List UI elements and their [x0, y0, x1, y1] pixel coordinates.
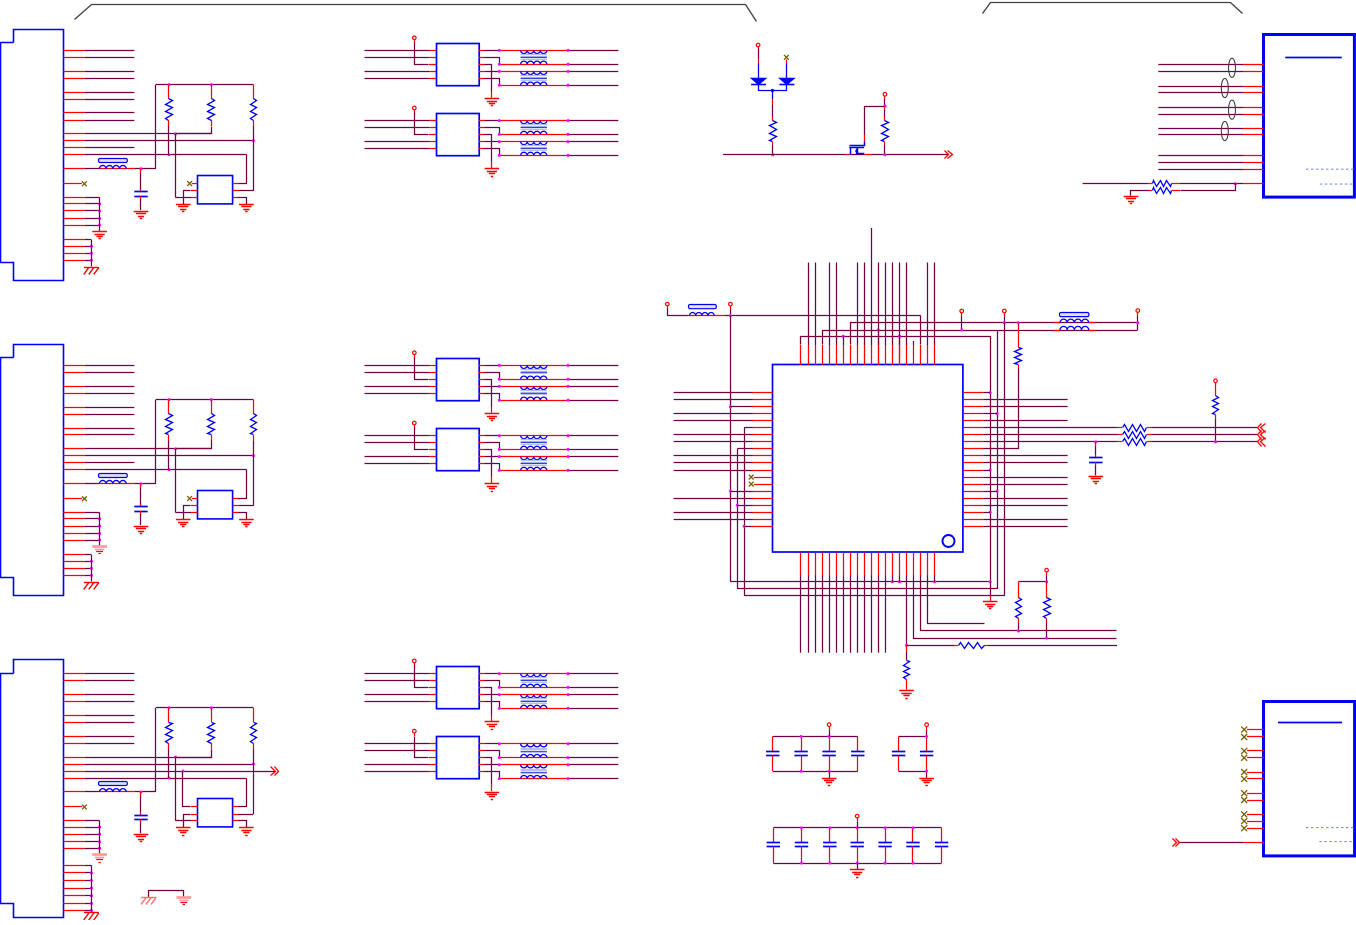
junction TA2 row 2 left [498, 133, 501, 136]
transformer TB1 [437, 359, 480, 401]
winding TC2 T1 primary [521, 744, 547, 747]
ferrite bead FB [99, 483, 136, 485]
winding TC2 T2 secondary [521, 775, 547, 778]
wire U1 top pin 16 bus [906, 345, 908, 365]
resistor R bias lower [1181, 184, 1236, 191]
wire T8 stub [850, 345, 852, 365]
wire TA1 winding row 2 [499, 64, 568, 66]
junction CB3 bottom 3 [828, 862, 831, 865]
ground A [92, 545, 107, 548]
wire osc right pin2 to R3 [233, 505, 239, 507]
wire J2 net row B [63, 455, 84, 457]
wire J3 NC pin [63, 806, 82, 808]
wire U1 left pin 2 [753, 399, 773, 401]
core TB1 T2 [521, 390, 547, 392]
wire U1 top pin 20 bus [934, 345, 936, 365]
junction on row D [168, 153, 171, 156]
wire osc left pin3 stub [191, 820, 198, 822]
junction R gate on bus [884, 153, 887, 156]
power port P6 [1003, 309, 1007, 313]
winding TB2 T1 primary [521, 436, 547, 439]
wire U1 right pin 20 [963, 526, 984, 528]
junction ground bus A [98, 539, 101, 542]
wire R1 bottom [168, 126, 170, 155]
wire J2 ground pin A1 [63, 512, 84, 514]
wire J4 pin row 2 [1158, 71, 1243, 73]
wire J1 shield pin B1 [63, 239, 84, 241]
transistor Q1 supervisor [850, 142, 865, 146]
junction TA2 row 3 left [498, 140, 501, 143]
wire TC2 out pin4 [479, 764, 485, 766]
ground TC2 [485, 792, 500, 794]
capacitor CB1C4 [857, 737, 859, 752]
wire J3 pin row 7 [63, 736, 84, 738]
wire J3 pin row 6 [63, 722, 84, 724]
wire rail vertical [155, 708, 157, 792]
wire J3 pin row 4 [63, 701, 84, 703]
core TB2 T1 [521, 439, 547, 441]
wire TA2 out pin2 jog [479, 127, 485, 129]
wire TA1 input row 2 [365, 57, 430, 59]
wire P1 to diode D1 [758, 47, 760, 49]
wire J1 pin row 1 [63, 50, 84, 52]
core TA1 T1 [521, 54, 547, 56]
junction L20 [743, 525, 746, 528]
core TC1 T1 [521, 677, 547, 679]
wire J1 pin row 5 [63, 92, 84, 94]
wire U1 bottom pin 20 gnd [934, 553, 936, 576]
capacitor CB1C3 [829, 737, 831, 752]
wire J1 pin row short [63, 147, 84, 149]
wire osc left pin2 to ground [191, 814, 198, 816]
wire TA2 input row 4 [365, 148, 430, 150]
wire J1 pin row 6 [63, 99, 84, 101]
ground under osc left [176, 827, 191, 829]
ground CB2 [919, 778, 934, 780]
wire T15 drop [899, 336, 901, 345]
junction P6 [1003, 321, 1006, 324]
no-connect X osc pin1 [187, 496, 192, 501]
wire J3 pin row 8 [63, 743, 84, 745]
wire U1 top pin 5 bus [829, 345, 831, 365]
wire TA2 input row 1 [365, 120, 430, 122]
wire U1 bottom pin 9 bus [857, 553, 859, 576]
wire U1 right pin 10 [963, 455, 984, 457]
junction bead node [140, 167, 143, 170]
wire R3 bottom through row B [253, 749, 255, 814]
power port TA2 [413, 106, 417, 110]
wire TA2 out pin4 [479, 141, 485, 143]
wire U1 left pin 5 [753, 420, 773, 422]
wire TC1 out pin4 [479, 694, 485, 696]
ground R bias [1124, 196, 1139, 198]
off-page arrow pin 7 [1258, 431, 1262, 440]
wire U1 right pin 3 [963, 406, 984, 408]
wire TC2 winding row 3 [499, 764, 568, 766]
junction TA2 row 4 right [567, 154, 570, 157]
wire U1 top pin 3 bus [815, 345, 817, 365]
wire osc left pin1 stub [192, 498, 198, 500]
junction ground bus A [98, 833, 101, 836]
wire J5 NC pin 3 [1247, 750, 1263, 752]
junction B15 [898, 580, 901, 583]
wire top row net3 (pins T4,T12) [823, 331, 1138, 345]
wire resistor top rail [156, 399, 254, 401]
wire U1 bottom pin 1 bus [800, 553, 802, 576]
junction TB2 row 2 right [567, 448, 570, 451]
wire row A tap down [175, 449, 177, 513]
junction ground bus A [98, 217, 101, 220]
junction ground bus A [98, 202, 101, 205]
junction TC2 row 1 left [498, 742, 501, 745]
wire TA1 input row 1 [365, 50, 430, 52]
junction on row D [168, 468, 171, 471]
wire P7 drop [1137, 313, 1139, 316]
junction CB1 bottom 2 [800, 770, 803, 773]
resistor R pair right [1046, 582, 1048, 598]
wire bead output node [135, 483, 156, 485]
resistor R bias upper [1180, 183, 1235, 185]
junction P5 [960, 329, 963, 332]
capacitor CB3C6 [912, 828, 914, 842]
wire U1 right pin 8 series R [963, 441, 984, 443]
junction TC2 row 4 left [498, 777, 501, 780]
junction TB2 row 4 right [567, 469, 570, 472]
wire U1 bottom pin 15 gnd [899, 553, 901, 576]
junction T7 [842, 335, 845, 338]
off-page arrow reset bus [945, 151, 949, 159]
wire U1 top pin 9 bus [857, 345, 859, 365]
wire TC2 pin3 to ground [479, 757, 485, 759]
wire osc left pin2 to ground [191, 505, 198, 507]
wire J4 pin row 3 [1158, 86, 1243, 88]
wire R2 bottom to row A [176, 750, 212, 758]
wire shield bus B vertical [91, 240, 93, 267]
wire osc right pin1 to row D [233, 498, 239, 500]
wire TB2 winding row 2 [499, 449, 568, 451]
no-connect X J5 pin 6 [1241, 776, 1247, 782]
winding TC1 T1 secondary [521, 684, 547, 687]
oscillator module Y1 [198, 176, 233, 204]
wire TB1 winding row 4 [499, 400, 568, 402]
wire rail vertical [155, 85, 157, 169]
winding TA2 T1 secondary [521, 131, 547, 134]
wire TB2 power to pin3 [414, 425, 416, 428]
no-connect X J5 pin 4 [1241, 755, 1247, 761]
capacitor CB3C4 [857, 828, 859, 842]
junction pin9 R top [1017, 321, 1020, 324]
junction shield bus B [90, 879, 93, 882]
twisted pair marker 1 [1229, 58, 1236, 77]
junction TA1 row 1 left [498, 49, 501, 52]
junction TB1 row 2 right [567, 378, 570, 381]
wire U1 left pin 16 [753, 498, 773, 500]
wire TC2 power to pin3 [414, 733, 416, 736]
power port TB1 [413, 351, 417, 355]
junction TB1 row 3 right [567, 385, 570, 388]
ground C term [1089, 476, 1104, 478]
power port TA1 [413, 36, 417, 40]
wire CB1 gnd stub [829, 771, 831, 777]
wire TB1 pin3 to ground [479, 379, 485, 381]
wire gate branch [865, 107, 885, 135]
junction shield bus B [90, 560, 93, 563]
wire row A tap down [175, 757, 177, 821]
power port TC2 [413, 729, 417, 733]
wire diode cathodes join [759, 85, 787, 91]
wire osc right pin1 to row D [233, 183, 239, 185]
wire CB1 top rail [773, 736, 858, 738]
wire TC1 input row 1 [365, 673, 430, 675]
junction TA1 row 2 right [567, 63, 570, 66]
wire J1 pin row 7 [63, 112, 84, 114]
wire CB1 bottom rail [773, 771, 858, 773]
junction P4 rail [729, 314, 732, 317]
wire TC2 out pin2 jog [479, 750, 485, 752]
wire TA2 winding row 1 [499, 120, 568, 122]
junction cap tap row8 [1094, 440, 1097, 443]
wire staircase VDDIO horizontal [744, 595, 1004, 597]
wire J1 shield pin B4 [63, 260, 84, 262]
wire staircase GND horizontal [730, 581, 990, 583]
resistor R1 [168, 708, 170, 722]
core TA2 T1 [521, 124, 547, 126]
wire VDDIO vertical right [1004, 323, 1006, 596]
wire J1 ground pin A4 [63, 218, 84, 220]
resistor R bus pullup [772, 99, 774, 105]
junction TA2 row 1 right [567, 119, 570, 122]
wire U1 right pin 18 [963, 512, 984, 514]
wire R1 bottom [168, 749, 170, 778]
ground B16 [899, 690, 914, 692]
junction CB3 top 4 [856, 826, 859, 829]
wire osc right pin2 to R3 [233, 814, 239, 816]
junction P2 node [884, 105, 887, 108]
wire U1 bottom pin 4 bus [822, 553, 824, 576]
wire J1 pin row 8 [63, 120, 84, 122]
wire U1 top pin 19 bus [927, 345, 929, 365]
junction GND corner [989, 580, 992, 583]
wire U1 right pin 14 [963, 484, 984, 486]
junction on row A [174, 756, 177, 759]
wire U1 right pin 16 [963, 498, 984, 500]
junction on row B [252, 139, 255, 142]
junction shield bus B [90, 574, 93, 577]
connector J2 [1, 345, 64, 596]
oscillator module Y1 [198, 799, 233, 827]
power port P4 [729, 302, 733, 306]
junction TB2 row 2 left [498, 448, 501, 451]
ground under osc right [239, 204, 254, 206]
wire CB2 top rail [899, 736, 927, 738]
wire J1 pin row 2 [63, 57, 84, 59]
wire U1 bottom pin 5 bus [829, 553, 831, 576]
wire J3 net row B [63, 764, 84, 766]
wire J1 pin row 3 [63, 71, 84, 73]
wire osc left pin1 to clock row [191, 806, 198, 808]
junction TC2 row 3 left [498, 763, 501, 766]
analog ground tie right [176, 896, 191, 899]
wire TC1 input row 2 [365, 680, 430, 682]
ground under capacitor [134, 211, 149, 213]
wire bead input J2 [63, 483, 84, 485]
wire U1 right pin 7 series R [963, 434, 984, 436]
junction CB1 bottom 3 [828, 770, 831, 773]
wire U1 left pin 10 [753, 455, 773, 457]
wire TB2 out pin5 jog [479, 463, 485, 465]
wire TB2 input row 2 [365, 442, 430, 444]
wire J5 NC pin 7 [1247, 793, 1263, 795]
wire U1 bottom pin 7 bus [843, 553, 845, 576]
wire TC1 winding row 3 [499, 694, 568, 696]
junction on row B [252, 454, 255, 457]
wire J3 shield pin B1 [63, 865, 84, 867]
junction shield bus B [90, 902, 93, 905]
capacitor CB3C1 [773, 828, 775, 842]
wire TA1 input row 3 [365, 71, 430, 73]
wire U1 top pin 11 bus [871, 345, 873, 365]
wire J1 net row D [63, 154, 84, 156]
wire bead input J1 [63, 168, 84, 170]
capacitor C term [1095, 442, 1097, 447]
wire D2 anode [786, 60, 788, 64]
dashed shield line J5 b [1319, 841, 1353, 843]
junction CB2 gnd bottom [925, 770, 928, 773]
oscillator module Y1 [198, 491, 233, 519]
wire J3 shield pin B5 [63, 895, 84, 897]
wire J2 pin row 6 [63, 414, 84, 416]
wire J3 ground pin A1 [63, 820, 84, 822]
wire TB2 out pin2 jog [479, 442, 485, 444]
wire J2 net row A [63, 448, 84, 450]
wire J2 pin row short [63, 462, 84, 464]
wire U1 bottom pin 19 row [927, 553, 929, 576]
junction shield bus B [90, 567, 93, 570]
junction rail R2 [210, 83, 213, 86]
wire J4 pin row 9 [1158, 155, 1243, 157]
ferrite bead FB [99, 791, 136, 793]
junction L15 [729, 490, 732, 493]
junction TC1 row 1 left [498, 672, 501, 675]
wire U1 right pin 12 [963, 470, 984, 472]
junction B20 [933, 580, 936, 583]
wire U1 bottom pin 11 bus [871, 553, 873, 576]
wire TC2 out pin1 [479, 743, 485, 745]
wire TB1 power to pin3 [414, 355, 416, 358]
no-connect X J5 pin 7 [1241, 790, 1247, 796]
wire VDD vertical right [997, 330, 999, 589]
resistor R1 [168, 400, 170, 414]
junction on row A [174, 447, 177, 450]
dashed shield line J5 a [1306, 827, 1354, 829]
resistor R3 [253, 400, 255, 414]
wire J2 ground pin A4 [63, 533, 84, 535]
junction TA1 row 3 right [567, 70, 570, 73]
capacitor C bead [140, 484, 142, 488]
off-page arrow pin 6 [1258, 424, 1262, 433]
connector J4 [1264, 35, 1355, 198]
power port CB3 [855, 814, 859, 818]
wire P5 drop [961, 313, 963, 317]
no-connect X L13 [749, 475, 754, 480]
junction TB2 row 4 left [498, 469, 501, 472]
wire TB1 out pin5 jog [479, 393, 485, 395]
wire U1 right pin 19 [963, 519, 984, 521]
wire TC1 out pin5 jog [479, 701, 485, 703]
wire CB3 top rail [773, 827, 941, 829]
wire J5 NC pin 8 [1247, 800, 1263, 802]
wire U1 top pin 6 bus [836, 345, 838, 365]
wire U1 left pin 3 [753, 406, 773, 408]
junction ground bus A [98, 532, 101, 535]
junction TB2 row 3 right [567, 455, 570, 458]
resistor R gate [884, 106, 886, 110]
resistor R series B16 row [907, 645, 955, 647]
capacitor CB2C1 [898, 737, 900, 752]
wire TB2 winding row 3 [499, 456, 568, 458]
junction rail R1 [168, 398, 171, 401]
wire TA1 out pin1 [479, 50, 485, 52]
junction T15 [898, 335, 901, 338]
wire TC1 winding row 4 [499, 708, 568, 710]
power port TC1 [413, 659, 417, 663]
wire TC1 power to pin3 [414, 663, 416, 666]
junction T12 row3 [877, 329, 880, 332]
wire ground bus A vertical [99, 197, 101, 230]
junction pair right [1045, 637, 1048, 640]
wire U1 right pin 4 [963, 413, 984, 415]
wire J5 NC pin 5 [1247, 772, 1263, 774]
no-connect X diode D2 anode [784, 55, 789, 60]
junction rail R1 [168, 83, 171, 86]
wire osc right pin3 to ground [233, 820, 239, 822]
wire R1 bottom [168, 441, 170, 470]
junction TC2 row 1 right [567, 742, 570, 745]
wire J2 ground pin A3 [63, 526, 84, 528]
wire TC2 winding row 4 [499, 778, 568, 780]
junction CB3 bottom 4 [856, 862, 859, 865]
wire L9-L17 vertical [737, 449, 739, 589]
wire U1 right pin 17 [963, 505, 984, 507]
junction rail R2 [210, 706, 213, 709]
wire U1 left pin 17 [753, 505, 773, 507]
wire row A tap down [175, 134, 177, 198]
wire J5 NC pin 4 [1247, 757, 1263, 759]
wire J3 pin row 3 [63, 694, 84, 696]
junction TA1 row 3 left [498, 70, 501, 73]
common-mode choke L1 [1060, 313, 1089, 317]
junction GND vertical R1 [989, 391, 992, 394]
wire U1 left pin 13 stub [754, 477, 773, 479]
junction TC2 row 4 right [567, 777, 570, 780]
wire J4 pin row 8 [1158, 134, 1243, 136]
wire U1 left pin 14 stub [754, 484, 773, 486]
wire J5 NC pin 9 [1247, 814, 1263, 816]
junction TB2 row 3 left [498, 455, 501, 458]
wire TA1 input row 4 [365, 78, 430, 80]
junction GND vertical R18 [989, 511, 992, 514]
junction GND vertical R12 [989, 469, 992, 472]
wire J1 shield pin B2 [63, 246, 84, 248]
wire U1 bottom pin 8 bus [850, 553, 852, 576]
wire P4 stub [730, 306, 732, 309]
winding TA1 T2 secondary [521, 82, 547, 85]
junction shield bus B [90, 894, 93, 897]
core TC2 T1 [521, 748, 547, 750]
ground under capacitor [134, 834, 149, 836]
wire J4 pin row 5 [1158, 107, 1243, 109]
junction diode node [771, 89, 774, 92]
